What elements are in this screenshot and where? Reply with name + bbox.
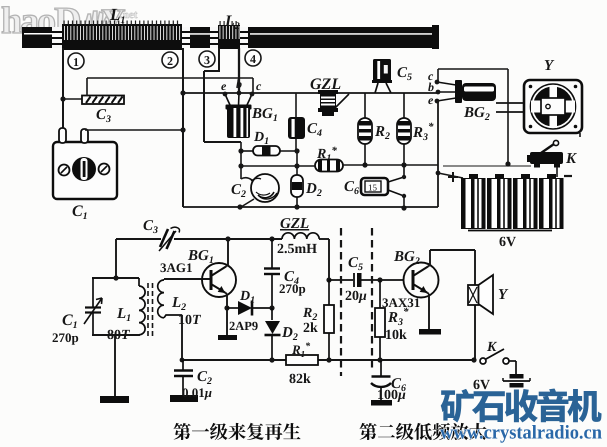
wire D1 node down: [296, 151, 298, 175]
wire tank bottom rail: [92, 334, 139, 336]
battery (schematic): [503, 361, 530, 388]
capacitor C5: [372, 59, 392, 93]
svg-text:2: 2: [167, 54, 173, 68]
svg-text:270p: 270p: [52, 330, 79, 345]
ground BG2 emitter: [419, 329, 441, 335]
node emitter/D1: [224, 305, 229, 310]
svg-text:100μ: 100μ: [377, 388, 406, 403]
diode D1: [241, 146, 297, 156]
svg-text:GZL: GZL: [280, 216, 309, 232]
plus sign: [448, 172, 458, 182]
wire tap3 with jog: [204, 48, 241, 142]
resistor R1 82k (schematic): [286, 355, 318, 365]
svg-text:2.5mH: 2.5mH: [277, 242, 317, 257]
svg-text:6V: 6V: [473, 378, 490, 393]
svg-text:20μ: 20μ: [345, 289, 367, 304]
switch K: [527, 140, 563, 167]
transistor BG2 can: [455, 80, 496, 103]
wire mid row: [241, 165, 438, 166]
capacitor C3 symbol (trimmer): [159, 227, 180, 251]
ground tank: [100, 396, 129, 403]
node C6 bottom: [402, 194, 406, 198]
node C2 bus: [237, 204, 242, 209]
wire GZL to C5: [319, 239, 329, 280]
wire bottom bus: [183, 206, 438, 208]
svg-text:2AP9: 2AP9: [229, 319, 258, 333]
svg-text:15: 15: [368, 183, 378, 193]
node BG1 collector: [225, 236, 230, 241]
wire tap2 vertical: [182, 48, 184, 207]
svg-text:82k: 82k: [289, 372, 311, 387]
wire tank top rail: [92, 277, 139, 279]
wire switch to battery minus: [556, 167, 558, 177]
wire emitter row: [183, 92, 437, 94]
wire C1 right terminal to tap2 vertical: [85, 129, 183, 131]
node D2 bus: [294, 204, 299, 209]
node R2 bottom (schematic): [326, 357, 331, 362]
watermark kuangshi shouyinji: [441, 389, 602, 423]
tap circle 3: [199, 51, 215, 67]
transistor BG2 leads: [437, 82, 456, 101]
watermark haoDIY: [1, 0, 138, 42]
capacitor C6 (schematic): [371, 360, 391, 400]
resistor R3 10k (schematic): [375, 280, 385, 360]
svg-text:270p: 270p: [279, 281, 306, 296]
BG2 collector wire: [428, 250, 475, 360]
svg-text:4: 4: [250, 52, 256, 66]
node e: [180, 90, 185, 95]
stage separator dashed lines: [341, 228, 372, 376]
node C1/tap2: [180, 127, 185, 132]
svg-text:K: K: [565, 151, 577, 167]
wire C3 up and over to tap3/collector: [87, 78, 253, 96]
svg-text:3: 3: [204, 53, 210, 67]
wire D1 row: [240, 142, 242, 166]
node emitter/batt: [436, 171, 441, 176]
wire BG2 collector loop: [438, 69, 508, 164]
node D1 right: [294, 148, 299, 153]
capacitor C3 trimmer: [82, 96, 124, 105]
wire switch feed: [443, 165, 531, 167]
transistor BG1 can: [225, 93, 252, 138]
node tank top: [113, 275, 118, 280]
BG1 collector wire: [226, 239, 228, 267]
svg-text:e: e: [221, 79, 227, 93]
resistor R2 2k (schematic): [324, 280, 334, 360]
node C5/R3: [377, 277, 382, 282]
node speaker bottom: [471, 357, 476, 362]
wire bottom rail: [182, 359, 474, 361]
BG1 emitter wire: [225, 293, 227, 337]
diode D2: [291, 175, 303, 208]
svg-text:b: b: [236, 77, 242, 91]
transistor BG2 (schematic): [404, 263, 439, 298]
svg-text:www.crystalradio.cn: www.crystalradio.cn: [440, 423, 602, 444]
ground BG1 emitter: [218, 335, 237, 340]
node D1 left: [238, 148, 243, 153]
node R2 bottom: [362, 162, 367, 167]
wire tank to ground: [114, 335, 116, 396]
wire C2 bottom to bus: [241, 199, 254, 207]
minus sign: [564, 175, 572, 177]
transistor BG1 (schematic): [202, 263, 236, 297]
capacitor C4: [288, 117, 305, 139]
inductor L2 (schematic): [158, 279, 182, 318]
svg-text:K: K: [486, 340, 498, 355]
ground C2: [170, 395, 198, 402]
node D2 bottom: [269, 357, 274, 362]
node D1/D2: [269, 305, 274, 310]
wire C6 to bus: [403, 196, 405, 208]
diode D1 (schematic): [227, 301, 272, 316]
wire L2 base lead: [164, 278, 211, 280]
speaker Y (schematic): [468, 275, 493, 314]
inductor L1 (schematic): [139, 278, 145, 336]
capacitor C2 (schematic): [174, 360, 193, 395]
speaker Y body: [524, 80, 582, 133]
battery 6V pack: [461, 174, 564, 231]
capacitor C4 (schematic): [264, 239, 280, 308]
BG2 emitter wire: [427, 293, 429, 330]
node junction C3/tap1: [60, 96, 65, 101]
wire battery plus: [438, 173, 463, 178]
wire speaker frame stub: [579, 133, 581, 137]
svg-text:1: 1: [73, 55, 79, 69]
tap circle 2: [162, 52, 178, 68]
choke GZL coil: [282, 233, 319, 239]
node C4 top: [269, 236, 274, 241]
BG1 lead dots e b c: [223, 91, 255, 97]
tap circle 4: [245, 50, 261, 66]
wire tap4 to base: [238, 48, 240, 93]
choke GZL body: [318, 90, 349, 116]
svg-text:10k: 10k: [385, 328, 407, 343]
switch K (schematic): [480, 349, 509, 364]
resistor R3: [397, 93, 411, 178]
wire BG2 emitter down: [437, 101, 439, 207]
tap circle 1: [68, 53, 84, 69]
diode D2 (schematic): [265, 308, 281, 360]
ferrite rod antenna with coils L1 and L2: [22, 21, 439, 51]
wire C3 to tap1: [63, 98, 82, 100]
ground C6: [371, 400, 392, 406]
wires to speaker: [496, 103, 543, 112]
caption stage 1: [173, 423, 300, 440]
svg-text:3AG1: 3AG1: [160, 260, 193, 275]
node collector wire: [505, 161, 510, 166]
wire C2 top lead: [241, 166, 252, 180]
BG2 lead dots: [435, 80, 441, 104]
svg-text:c: c: [256, 79, 262, 93]
resistor R2: [358, 93, 372, 165]
node R2 top (schematic): [326, 277, 331, 282]
node C2 top: [238, 163, 243, 168]
svg-text:b: b: [428, 80, 434, 94]
transformer core dashes: [148, 283, 153, 336]
resistor R1 body: [315, 160, 343, 172]
svg-text:2k: 2k: [303, 321, 318, 336]
capacitor C2 body: [251, 174, 279, 202]
wire C4 top lead: [295, 93, 297, 117]
node C6 bus: [401, 205, 406, 210]
variable capacitor C1 (schematic): [84, 278, 102, 335]
capacitor C6 body: [361, 177, 404, 196]
node mid wire: [294, 163, 299, 168]
node L2/C2: [180, 358, 185, 363]
svg-text:e: e: [428, 93, 434, 107]
capacitor C5 (schematic): [329, 273, 404, 287]
wire C4 bottom to D1 node: [295, 139, 297, 151]
wire tap1 to C1: [62, 48, 64, 129]
node R3 bottom: [401, 162, 406, 167]
node R3 bottom: [377, 357, 382, 362]
svg-text:0.01μ: 0.01μ: [182, 385, 212, 400]
wire L2 bottom down: [181, 315, 183, 360]
variable capacitor C1 body: [53, 128, 117, 199]
node C6 top: [402, 175, 406, 179]
lead labels e b c: [221, 77, 262, 93]
BG2 lead labels: [428, 69, 434, 107]
svg-text:6V: 6V: [499, 235, 516, 250]
caption stage 2: [359, 423, 486, 440]
wire collector bus: [116, 239, 282, 278]
